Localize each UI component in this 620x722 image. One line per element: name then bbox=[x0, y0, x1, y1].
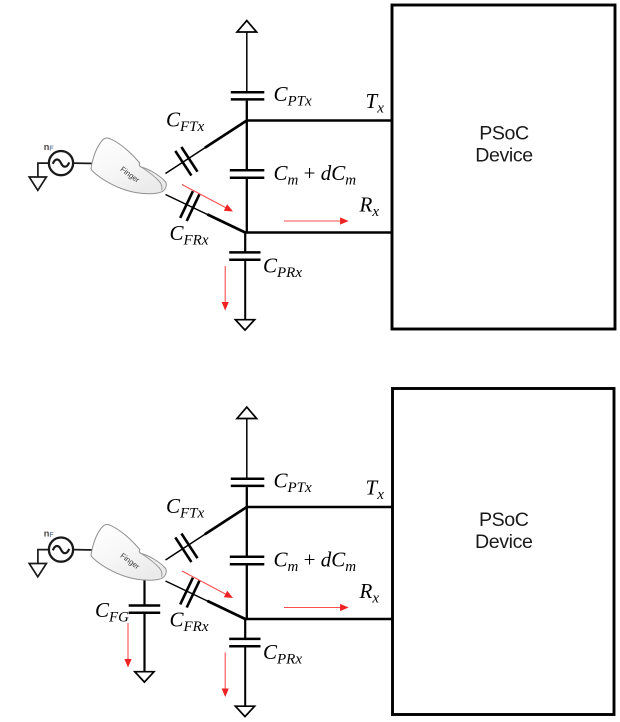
wire from top arrow to C_PTx (bottom) bbox=[246, 417, 248, 479]
wire Rx node to C_PRx (top) bbox=[244, 233, 246, 252]
wire Rx node to PSoC (top) bbox=[245, 231, 393, 233]
svg-text:Cm + dCm: Cm + dCm bbox=[274, 161, 357, 189]
svg-text:Device: Device bbox=[475, 145, 533, 167]
wire Rx node to C_PRx (bottom) bbox=[244, 619, 246, 638]
wire Rx node to PSoC (bottom) bbox=[245, 618, 393, 620]
up arrow (to Tx driver) (top) bbox=[237, 21, 257, 32]
PSoC Device box (top) bbox=[392, 5, 615, 329]
AC source nF bbox=[49, 538, 73, 562]
ground (left of AC source) bbox=[29, 177, 46, 190]
svg-text:Cm + dCm: Cm + dCm bbox=[274, 548, 357, 576]
ground (below C_PRx) (top) bbox=[235, 320, 254, 330]
red arrow Rx current (bottom) bbox=[284, 607, 341, 609]
wire C_m to Rx node (top) bbox=[246, 179, 248, 233]
capacitor C_FTx (top) bbox=[181, 147, 197, 172]
svg-text:PSoC: PSoC bbox=[479, 122, 529, 144]
capacitor C_FTx (bottom) bbox=[181, 534, 197, 559]
finger (bottom) bbox=[91, 524, 166, 580]
svg-text:Device: Device bbox=[475, 531, 533, 553]
red arrow Rx current (top) bbox=[284, 220, 341, 222]
wire finger to Rx node through C_FRx (top) bbox=[166, 195, 246, 233]
ground (below C_PRx) (bottom) bbox=[235, 706, 254, 716]
wire finger to Tx node through C_FTx (bottom) bbox=[166, 507, 247, 560]
wire C_m to Rx node (bottom) bbox=[246, 565, 248, 619]
red arrow finger to Rx current (top) bbox=[182, 185, 226, 209]
wire finger to C_FG (bottom) bbox=[143, 578, 145, 605]
wire C_PRx to ground (top) bbox=[244, 261, 246, 320]
red arrow finger to Rx current (bottom) bbox=[182, 571, 226, 595]
capacitor C_m + dC_m (top) bbox=[230, 169, 264, 172]
red arrow C_PRx current (bottom) bbox=[224, 653, 226, 690]
AC source nF bbox=[49, 151, 73, 175]
capacitor C_PRx (top) bbox=[229, 251, 260, 254]
ground (below C_FG) (bottom) bbox=[135, 672, 154, 682]
wire from top arrow to C_PTx (top) bbox=[246, 30, 248, 92]
wire from source to finger bbox=[74, 549, 96, 551]
wire Tx node to PSoC (bottom) bbox=[246, 506, 394, 508]
capacitor C_FG (bottom) bbox=[129, 604, 161, 607]
svg-text:PSoC: PSoC bbox=[479, 509, 529, 531]
wire finger to Rx node through C_FRx (bottom) bbox=[166, 581, 246, 619]
wire Tx node to PSoC (top) bbox=[246, 119, 393, 121]
PSoC Device box (bottom) bbox=[393, 389, 615, 715]
capacitor C_PTx (bottom) bbox=[231, 477, 264, 480]
wire from source to ground (left) bbox=[38, 163, 49, 177]
wire C_PTx to Tx node (bottom) bbox=[246, 487, 248, 508]
wire Tx node to C_m (top) bbox=[246, 121, 248, 170]
capacitor C_FRx (top) bbox=[180, 191, 193, 218]
capacitor C_m + dC_m (bottom) bbox=[230, 556, 264, 559]
wire C_PTx to Tx node (top) bbox=[246, 101, 248, 122]
red arrow C_FG current (bottom) bbox=[127, 623, 129, 660]
capacitor C_PRx (bottom) bbox=[229, 638, 260, 641]
ground (left of AC source) bbox=[29, 564, 46, 577]
wire C_PRx to ground (bottom) bbox=[244, 648, 246, 707]
wire Tx node to C_m (bottom) bbox=[246, 507, 248, 556]
red arrow C_PRx current (top) bbox=[224, 266, 226, 303]
capacitor C_FRx (bottom) bbox=[180, 578, 193, 605]
wire C_FG to ground (bottom) bbox=[143, 614, 145, 672]
wire from source to ground (left) bbox=[38, 550, 49, 564]
capacitor C_PTx (top) bbox=[231, 91, 264, 94]
wire from source to finger bbox=[74, 162, 96, 164]
finger (top) bbox=[91, 138, 166, 194]
up arrow (to Tx driver) (bottom) bbox=[237, 407, 257, 418]
wire finger to Tx node through C_FTx (top) bbox=[166, 121, 247, 174]
